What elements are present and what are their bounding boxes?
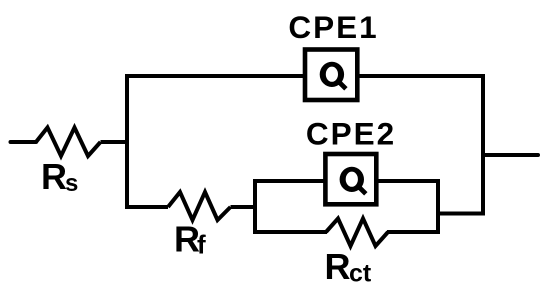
svg-text:CPE1: CPE1	[288, 9, 378, 45]
wire Rs to left node	[101, 140, 130, 144]
wire right branch: top-right corner down to inner-parallel connector	[438, 76, 483, 214]
wire output lead (right terminal)	[483, 153, 538, 157]
wire Rf to inner parallel left edge	[231, 205, 258, 209]
wire inner parallel right edge	[377, 181, 438, 232]
resistor Rf zigzag	[168, 192, 231, 220]
CPE2 box U2	[325, 154, 376, 204]
svg-text:Rf: Rf	[174, 219, 206, 260]
wire inner parallel top (passes under CPE2 box)	[255, 179, 438, 183]
wire input lead (left terminal)	[11, 140, 37, 144]
CPE2 value label Q (bowl)	[340, 167, 364, 192]
CPE2 value label Q (tail)	[358, 186, 366, 194]
wire inner parallel left edge	[255, 181, 327, 232]
svg-text:Rct: Rct	[325, 246, 372, 288]
svg-text:Rs: Rs	[41, 156, 78, 197]
svg-text:CPE2: CPE2	[306, 115, 396, 151]
CPE1 box U1	[305, 50, 357, 101]
CPE1 value label Q (tail)	[338, 81, 346, 89]
wire top branch (passes under CPE1 box)	[127, 74, 483, 78]
resistor Rct zigzag	[326, 219, 388, 247]
wire left branch: top-left corner down to bottom-left corner	[127, 76, 305, 207]
resistor Rs zigzag	[36, 128, 101, 157]
CPE1 value label Q (bowl)	[320, 62, 344, 87]
